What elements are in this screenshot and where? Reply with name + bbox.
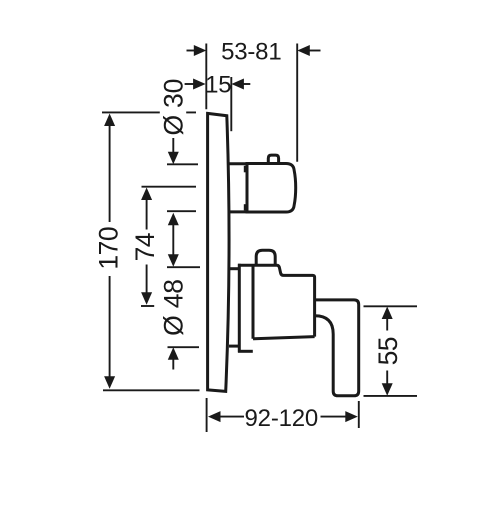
ext line vertical left (53-81 / 15) — [205, 44, 207, 110]
dim 74 line upper — [146, 199, 148, 230]
valve body top with step — [277, 265, 315, 336]
arrow 15 right — [231, 79, 244, 90]
ext line sleeve bottom (O30) — [167, 210, 196, 212]
svg-text:74: 74 — [130, 233, 160, 261]
valve flange bottom edge — [238, 350, 253, 353]
lower connecting piece bottom edge — [229, 345, 239, 348]
dim segment O30 bottom to O48 top — [172, 224, 174, 256]
ext line plate top / 170 top — [102, 111, 196, 113]
ext line sleeve centre (74 top) — [142, 186, 197, 188]
arrow 92-120 right — [345, 411, 358, 422]
ext line valve centre (74 bottom) — [141, 305, 154, 307]
valve flange top edge — [238, 264, 277, 267]
ext line 55 top — [364, 305, 418, 307]
arrow 55 top (up) — [382, 307, 393, 320]
svg-text:15: 15 — [205, 72, 231, 99]
dim 170 line upper — [109, 125, 111, 222]
lever handle — [315, 300, 359, 396]
arrow 74 bottom (down) — [141, 292, 152, 305]
dim O30 tail from text — [172, 138, 174, 153]
ext line flange top (O48) — [167, 266, 200, 268]
ext line 55 bottom — [364, 395, 418, 397]
arrow O30 top (down) — [168, 152, 179, 165]
arrow 170 bottom — [104, 376, 115, 389]
ext line vertical right 15 — [230, 77, 232, 131]
valve flange left edge — [238, 264, 241, 353]
dim 92-120 right tail — [321, 416, 347, 418]
ext line 92-120 left — [206, 398, 208, 432]
thermostat knob — [247, 164, 296, 213]
ext line flange bottom (O48) — [168, 346, 200, 348]
arrow 170 top — [104, 114, 115, 127]
ext line sleeve top (O30) — [167, 163, 198, 165]
dim 170 line lower — [109, 276, 111, 378]
dim 92-120 left tail — [220, 416, 245, 418]
svg-text:Ø 48: Ø 48 — [159, 279, 189, 336]
arrow O48 bottom (up) — [168, 347, 179, 360]
arrow 53-81 left — [194, 45, 207, 56]
wall plate (escutcheon, side profile) — [208, 113, 229, 391]
thermostat sleeve top edge — [229, 162, 247, 165]
lower connecting piece top edge — [229, 267, 239, 270]
cartridge left edge — [252, 265, 255, 339]
arrow O30 bottom (up) — [168, 213, 179, 226]
dim 53-81 left tail — [187, 50, 195, 52]
ext line 92-120 right — [358, 401, 360, 428]
arrow 74 top (up) — [141, 188, 152, 201]
valve body bottom edge — [253, 337, 315, 339]
dim 74 line lower — [146, 265, 148, 294]
arrow O48 top (down) — [168, 254, 179, 266]
svg-text:53-81: 53-81 — [221, 39, 281, 66]
arrow 15 left — [193, 79, 206, 90]
svg-text:170: 170 — [93, 227, 123, 270]
dim 55 upper line — [386, 318, 388, 331]
arrow 55 bottom (down) — [382, 383, 393, 396]
thermostat sleeve bottom edge — [229, 210, 247, 213]
dim 15 right tail — [243, 83, 250, 85]
svg-text:Ø 30: Ø 30 — [159, 79, 189, 136]
arrow 53-81 right — [297, 45, 310, 56]
dim 15 left tail — [185, 83, 194, 85]
diverter dome knob — [256, 250, 275, 265]
knob top button — [268, 155, 278, 163]
svg-text:55: 55 — [373, 337, 403, 365]
dim 53-81 right tail — [309, 50, 321, 52]
ext line plate bottom / 170 bottom — [103, 389, 200, 391]
ext line vertical right 53-81 — [296, 44, 298, 162]
dim 55 lower line — [386, 371, 388, 385]
knob rear clip top — [244, 166, 247, 173]
svg-text:92-120: 92-120 — [245, 405, 319, 432]
knob rear clip bottom — [244, 204, 247, 210]
arrow 92-120 left — [208, 411, 221, 422]
dim O48 bottom tail — [172, 359, 174, 370]
